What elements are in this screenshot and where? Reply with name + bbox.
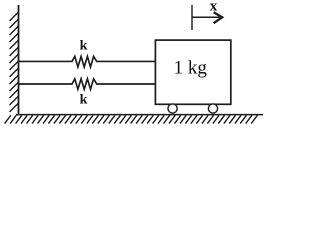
svg-text:1 kg: 1 kg: [174, 58, 208, 79]
svg-text:k: k: [80, 93, 88, 108]
svg-text:k: k: [80, 38, 88, 53]
svg-text:x: x: [210, 0, 218, 14]
